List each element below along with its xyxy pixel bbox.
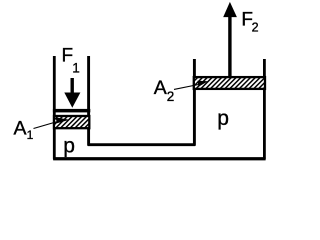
- svg-text:p: p: [63, 135, 75, 158]
- svg-text:2: 2: [252, 21, 259, 35]
- svg-text:A: A: [14, 117, 27, 139]
- svg-text:2: 2: [167, 89, 175, 104]
- svg-text:p: p: [217, 107, 229, 130]
- svg-text:1: 1: [27, 128, 34, 142]
- svg-text:1: 1: [72, 61, 80, 76]
- svg-text:A: A: [154, 77, 167, 99]
